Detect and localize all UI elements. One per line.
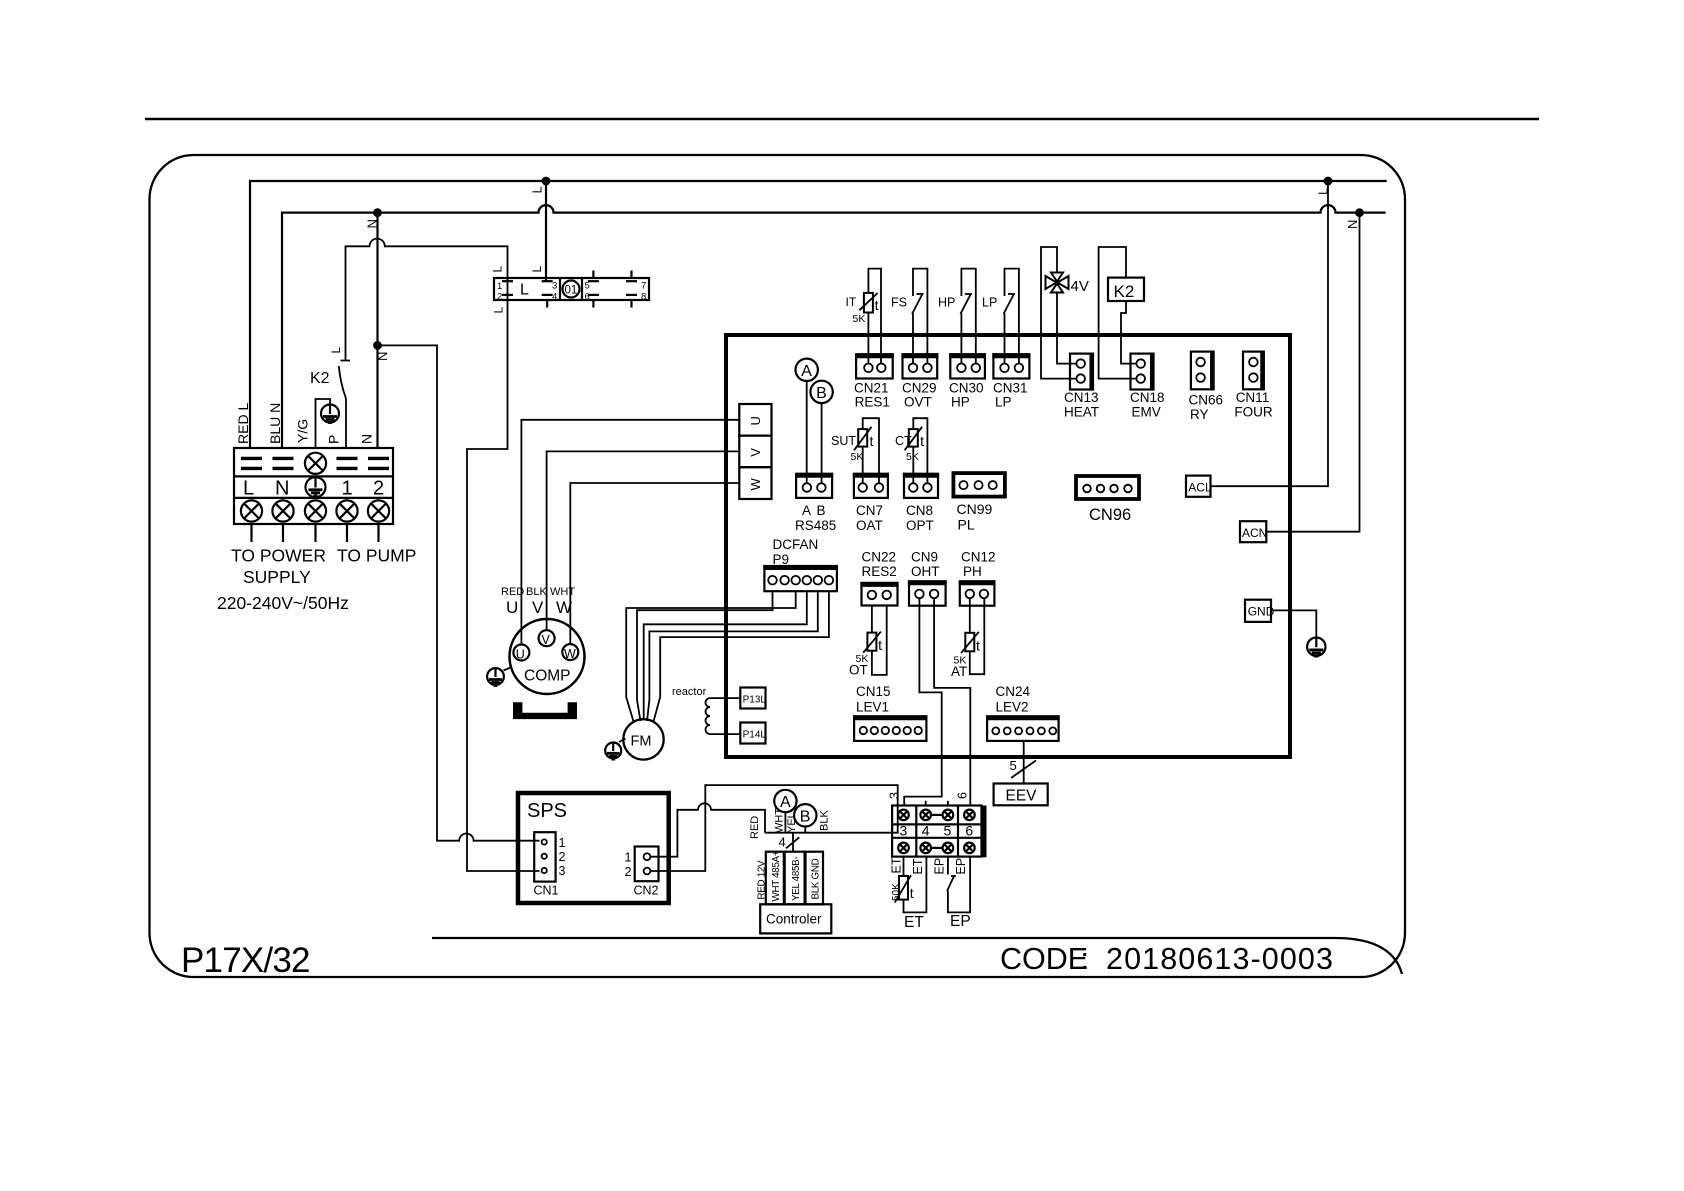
svg-text:U: U [748,416,763,425]
wire L feed from bus to connector pin3 [545,181,547,281]
wire LEV2 to EEV with slash 5 [1010,741,1037,784]
wire stub below terminal 2 [377,524,379,542]
label CN12 PH [961,550,996,580]
svg-text:8: 8 [641,292,646,303]
svg-text:GND: GND [1248,605,1275,619]
svg-text:t: t [920,433,924,449]
pin 5 tick [585,271,599,292]
svg-text:3: 3 [559,864,566,878]
compressor terminal V [539,630,555,647]
svg-text:reactor: reactor [672,686,707,698]
svg-text:LP: LP [982,296,997,310]
label CN11 FOUR [1234,390,1272,420]
label EP [950,913,971,930]
connector CN2 [635,847,659,882]
svg-text:V: V [542,633,551,647]
svg-text:P13L: P13L [743,695,767,706]
svg-text:ACN: ACN [1242,526,1267,540]
svg-text:01: 01 [565,285,578,297]
svg-text:3: 3 [552,281,557,292]
svg-text:5K: 5K [851,451,864,463]
svg-text:t: t [878,637,882,653]
label 3 rotated above terminal [888,792,902,799]
terminal screw bottom 2 [368,500,389,521]
protective earth symbol top (Y/G) [321,405,339,423]
svg-text::: : [1081,942,1089,976]
label TO PUMP [337,546,416,566]
terminal screw bottom L [241,500,262,521]
terminal label L [243,478,254,500]
label IT 5K [846,295,866,325]
thermistor OT loop [863,606,887,675]
label LP [982,296,997,310]
label CN21 RES1 [854,381,890,410]
power supply board SPS outline [518,793,669,903]
label CN2 pins 1 2 [625,851,632,880]
connector P13L [740,688,766,709]
svg-text:B: B [817,503,826,518]
connector CN13 [1070,353,1093,391]
svg-text:SPS: SPS [527,800,567,822]
svg-text:TO POWER: TO POWER [231,546,326,566]
svg-text:EP: EP [933,858,947,875]
compressor terminal U [513,645,529,662]
connector CN11 [1243,351,1264,391]
connector P9 [763,566,838,591]
connector CN29 [901,354,938,378]
terminal screw top earth column [305,453,326,474]
controller wire box WHT 485A+ [766,850,784,904]
bundle slash 4 [779,835,800,850]
node L junction dot right [1316,177,1333,195]
label CN22 RES2 [862,550,897,580]
wire stub below terminal 1 [346,524,348,542]
svg-text:LP: LP [995,395,1012,410]
svg-text:CN21: CN21 [854,381,889,396]
wire CN2 pin1 to RS485 harness, hop at x=705 [650,803,765,856]
wire CN2 pin2 BLK harness outline [650,785,897,871]
main control PCB outline [726,335,1290,757]
label N rotated at terminal 2 [359,434,375,444]
model label P17X/32 [181,941,310,980]
svg-text:PL: PL [958,517,975,533]
svg-text:N: N [359,434,375,444]
terminal link bars column 1 [337,458,358,468]
svg-text:DCFAN: DCFAN [773,537,819,552]
drawing border frame [150,155,1406,977]
switch FS loop [912,269,927,364]
terminal screw bottom N [272,500,293,521]
controller wire box BLK GND [806,852,824,905]
svg-text:CN15: CN15 [856,684,891,699]
svg-text:CN8: CN8 [906,503,933,518]
svg-text:2: 2 [559,850,566,864]
terminal label 1 [342,478,353,500]
svg-text:EP: EP [950,913,971,930]
svg-text:CN13: CN13 [1064,390,1099,405]
terminal screws TB2 top row [898,810,975,821]
svg-text:WHT: WHT [550,586,575,598]
svg-text:P9: P9 [773,552,790,567]
terminal screw bottom 1 [336,500,357,521]
label RED wire [501,586,524,598]
terminal link bars column 2 [368,458,389,468]
label DCFAN P9 [773,537,819,567]
label TO POWER [231,546,326,566]
connector V box on PCB edge [739,436,771,468]
svg-text:HEAT: HEAT [1064,405,1099,420]
label CN7 OAT [856,503,883,533]
svg-text:2: 2 [497,292,502,303]
wire U phase PCB to COMP [521,420,739,645]
wire CN9 pin1 to terminal 3 [904,598,942,806]
switch K2 contact [339,361,350,399]
svg-text:CN11: CN11 [1236,390,1270,405]
svg-text:4: 4 [552,292,557,303]
svg-text:BLK: BLK [819,810,831,831]
svg-text:BLK GND: BLK GND [811,858,822,899]
svg-text:RED 12V: RED 12V [757,860,768,900]
compressor COMP outer circle [510,619,585,694]
svg-text:COMP: COMP [524,668,571,685]
svg-text:5: 5 [1010,758,1017,773]
svg-text:FS: FS [891,296,907,310]
svg-text:CN1: CN1 [534,884,559,898]
connector CN31 [992,354,1030,378]
wire V phase PCB to COMP [547,451,740,630]
svg-text:CN24: CN24 [996,684,1031,699]
svg-text:RS485: RS485 [795,518,836,533]
svg-text:CN2: CN2 [634,884,659,898]
connector ACL [1186,476,1212,497]
wire 4V bottom to CN13 pin1 [1057,293,1077,364]
label CT 5K [895,434,919,463]
wire FM phase 3 [644,591,807,719]
thermistor CT loop [905,418,928,483]
svg-text:CN9: CN9 [911,550,938,565]
label CN1 [534,884,559,898]
label CN31 LP [993,381,1028,410]
label CN1 pins 1 2 3 [559,836,566,878]
terminal link bars column L [241,458,262,468]
svg-text:V: V [748,448,763,457]
svg-text:A: A [801,363,812,380]
connector P14L [740,723,766,744]
svg-text:A: A [802,503,811,518]
thermistor ET loop [895,857,927,913]
svg-text:ET: ET [904,914,924,931]
svg-text:WHT: WHT [774,808,786,833]
terminal earth symbol middle [306,477,326,497]
terminal block TB2 body [892,806,986,858]
tick above terminal 5 [947,801,949,806]
wire stub below terminal earth [314,524,316,542]
label EP rotated pair [933,858,969,875]
wire 4-core bundle to controller [792,833,794,852]
svg-text:OPT: OPT [906,518,934,533]
wire FM phase 4 [647,591,818,721]
svg-text:BLU N: BLU N [267,403,283,444]
label CN99 PL [957,501,993,533]
svg-text:2: 2 [625,865,632,879]
controller wire box YEL 485B- [785,852,805,905]
wire K2 bottom to CN18 pin1 [1121,301,1137,364]
compressor terminal W [562,644,578,661]
svg-text:1: 1 [559,836,566,850]
svg-text:4V: 4V [1071,278,1089,295]
svg-text:P14L: P14L [743,730,767,741]
svg-text:SUPPLY: SUPPLY [243,567,311,587]
terminal block TB1 body [234,448,393,524]
label RED 12V rotated [757,860,768,900]
label BLU N rotated [267,403,283,444]
wire A stem [784,812,786,833]
svg-text:L: L [329,347,343,354]
thermistor SUT loop [854,418,879,483]
connector RS485 [795,474,833,498]
svg-text:FM: FM [631,734,652,750]
svg-text:3: 3 [888,792,902,799]
earth symbol at GND [1307,638,1325,657]
svg-text:50K: 50K [891,883,902,901]
svg-text:RES1: RES1 [855,395,890,410]
svg-text:5: 5 [944,823,952,839]
svg-text:3: 3 [900,823,908,839]
terminal link bars column N [273,458,294,468]
svg-text:t: t [976,637,980,653]
svg-text:OAT: OAT [856,518,883,533]
svg-text:RY: RY [1190,407,1209,422]
label CN96 [1089,506,1131,524]
svg-text:RED: RED [501,586,524,598]
label K2 switch [310,370,330,387]
svg-text:WHT 485A+: WHT 485A+ [771,850,782,901]
connector X1 circle 01 [563,281,580,298]
svg-text:K2: K2 [1114,282,1135,301]
label AT 5K [951,655,967,680]
svg-text:CN29: CN29 [902,381,937,396]
wire CN9 pin2 to terminal 6 [934,598,970,806]
node A circle remote [774,790,796,812]
svg-text:SUT: SUT [831,434,856,448]
label reactor [672,686,707,698]
wire ACN to N bus [1266,213,1359,532]
wire reactor to P13L [710,697,740,699]
wire GND to earth [1271,610,1316,637]
svg-text:HP: HP [938,296,955,310]
svg-text:P17X/32: P17X/32 [181,941,310,980]
label 6 rotated above terminal [956,792,970,799]
svg-text:L: L [492,307,506,314]
wire FM phase 1 [626,591,796,721]
svg-text:CN12: CN12 [961,550,996,565]
wire reactor to P14L [710,733,740,735]
svg-text:CN31: CN31 [993,381,1028,396]
node N junction dot left [365,208,382,228]
wire A to RS485 [806,381,808,483]
switch HP loop [960,269,975,364]
label P rotated [326,435,342,444]
svg-text:LEV1: LEV1 [856,700,889,715]
svg-text:N: N [275,478,289,500]
label CN66 RY [1189,393,1224,423]
wire stub below terminal L [250,524,252,542]
node N junction dot lower [373,341,390,361]
terminal screw bottom earth [305,500,326,521]
compressor mounting bracket [513,702,577,719]
code label [1000,942,1334,976]
svg-text:RED: RED [749,816,761,839]
earth symbol at COMP [487,667,511,686]
svg-text:LEV2: LEV2 [996,700,1029,715]
svg-text:6: 6 [585,292,590,303]
connector X1 big label L [520,282,529,299]
wire W phase PCB to COMP [570,483,739,644]
svg-text:ET: ET [890,857,904,873]
label V phase [532,598,544,617]
connector CN18 [1131,353,1154,391]
svg-text:W: W [748,478,763,491]
wire ACL to L bus [1211,181,1329,486]
svg-text:L: L [530,186,545,193]
label SPS [527,800,567,822]
svg-text:AT: AT [951,664,967,679]
svg-text:B: B [816,385,827,402]
node B circle [810,381,832,403]
svg-text:V: V [532,598,544,617]
terminal label N [275,478,289,500]
label Y/G rotated [295,419,311,443]
connector CN24 [986,716,1060,741]
label CN30 HP [949,381,984,410]
wire FM phase 5 [654,591,829,721]
svg-text:B: B [800,808,811,825]
earth symbol at FM [605,739,625,760]
tick above terminal 4 [925,801,927,806]
label BLK rotated [819,810,831,831]
svg-text:CN7: CN7 [856,503,883,518]
svg-text:RED L: RED L [235,403,251,444]
node A circle [796,359,818,381]
svg-text:EEV: EEV [1006,788,1038,805]
svg-text:PH: PH [963,564,982,579]
svg-text:OHT: OHT [911,564,940,579]
wire N branch to SPS CN1 pin1, hop at x=467 [378,345,540,840]
terminal label 2 [373,478,384,500]
svg-text:CN99: CN99 [957,501,993,517]
wire K2 top loop to CN18 pin2 [1099,247,1137,379]
svg-text:4: 4 [922,823,930,839]
svg-text:RES2: RES2 [862,564,897,579]
svg-text:220-240V~/50Hz: 220-240V~/50Hz [217,593,349,613]
label CN9 OHT [911,550,940,580]
node B circle remote [794,804,816,826]
connector CN66 [1191,351,1214,391]
label BLK wire [526,586,547,598]
wire P from K2 to terminal 1 [345,399,347,449]
label CN18 EMV [1130,390,1165,420]
svg-text:EP: EP [954,858,968,875]
label COMP [524,668,571,685]
svg-text:6: 6 [956,792,970,799]
svg-text:5: 5 [585,281,590,292]
svg-text:CT: CT [895,434,912,448]
label L rotated at connector pin3 [530,266,544,273]
svg-text:L: L [491,266,505,273]
wire stub below terminal N [282,524,284,542]
svg-text:TO PUMP: TO PUMP [337,546,416,566]
svg-text:1: 1 [497,281,502,292]
pin 3 tick [542,281,558,292]
svg-text:CN96: CN96 [1089,506,1131,524]
box Controller [760,904,831,933]
svg-text:P: P [326,435,342,444]
label SUPPLY [243,567,311,587]
label A B RS485 [795,503,836,533]
label CN29 OVT [902,381,937,410]
svg-text:1: 1 [625,851,632,865]
pin 6 tick [585,292,599,308]
fan motor FM [623,719,663,759]
node L junction dot left [530,177,551,194]
label YEL rotated [786,812,798,833]
node N junction dot right [1345,208,1364,229]
connector U box on PCB edge [739,404,771,436]
connector X1 body with sections [494,278,649,300]
svg-text:ET: ET [911,858,925,874]
svg-text:t: t [910,885,914,901]
label L rotated below connector pin2 [492,307,506,314]
wire B to RS485 [821,403,823,483]
connector ACN [1240,521,1267,542]
svg-text:t: t [875,297,879,313]
svg-text:1: 1 [342,478,353,500]
svg-text:FOUR: FOUR [1234,405,1272,420]
label CN24 LEV2 [996,684,1031,715]
thermistor AT loop [961,598,984,674]
connector CN1 [534,832,555,881]
connector GND [1245,600,1275,622]
wire N bus with BLU N drop, hops at x=546 and x=1328 [282,205,1386,448]
label U phase [506,598,518,617]
pin 2 tick [497,292,513,303]
wire N vertical from bus to junction [376,213,378,346]
label CN2 [634,884,659,898]
connector CN12 [959,581,996,605]
svg-text:HP: HP [951,395,970,410]
svg-text:YEL 485B-: YEL 485B- [791,857,802,901]
svg-text:4: 4 [779,835,786,850]
label CN15 LEV1 [856,684,891,715]
label SUT 5K [831,434,863,463]
svg-text:K2: K2 [310,370,330,387]
connector CN99 [953,473,1005,497]
label 4V [1071,278,1089,295]
switch EP loop [947,857,970,913]
svg-text:2: 2 [373,478,384,500]
svg-text:OT: OT [849,663,868,678]
svg-text:EMV: EMV [1132,405,1161,420]
pin 8 tick [626,292,646,308]
label L rotated on K2 feed [329,347,343,354]
svg-text:U: U [506,598,518,617]
svg-text:N: N [1345,220,1360,229]
svg-text:5K: 5K [906,451,919,463]
terminal screws TB2 bottom row [898,843,975,854]
label CN8 OPT [906,503,934,533]
svg-text:L: L [520,282,529,299]
svg-text:CODE: CODE [1000,942,1088,976]
